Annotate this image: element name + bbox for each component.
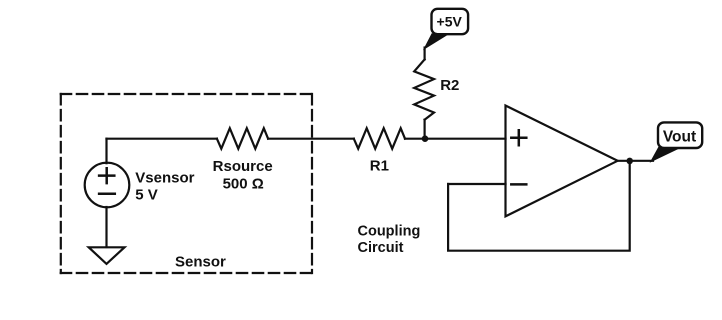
voltage source Vsensor circle [85, 163, 130, 208]
ground symbol [89, 247, 125, 264]
svg-text:Sensor: Sensor [175, 254, 226, 271]
wire from voltage source bottom to ground [105, 207, 107, 247]
wire: feedback loop [448, 161, 630, 251]
Vout flag pennant [651, 147, 678, 162]
svg-text:Vout: Vout [663, 129, 696, 146]
+5V flag pennant [424, 34, 447, 49]
svg-text:Rsource: Rsource [213, 158, 273, 175]
resistor Rsource zigzag [217, 128, 268, 149]
resistor R2 vertical zigzag [414, 59, 434, 119]
wire: R1 through node to op-amp plus input [405, 138, 506, 140]
node junction dot at R1/R2 [422, 135, 429, 142]
op-amp plus input symbol [511, 130, 526, 145]
wire: Rsource to R1 [268, 138, 354, 140]
node junction dot at output [626, 158, 633, 165]
wire: R2 bottom to node [424, 120, 426, 139]
resistor R1 zigzag [354, 128, 405, 149]
svg-text:R2: R2 [440, 77, 459, 94]
op-amp U1 triangle [506, 106, 618, 217]
voltage source minus sign [99, 192, 115, 195]
wire: inverting input [448, 183, 505, 185]
svg-text:500 Ω: 500 Ω [223, 175, 264, 192]
svg-text:5 V: 5 V [135, 186, 158, 203]
wire: main horizontal from source to Rsource [107, 138, 217, 140]
dashed sensor enclosure box [61, 94, 312, 273]
svg-text:R1: R1 [370, 158, 389, 175]
Vout flag box [658, 122, 702, 148]
svg-text:Vsensor: Vsensor [135, 170, 194, 187]
svg-text:+5V: +5V [437, 14, 463, 30]
voltage source plus sign [99, 168, 114, 183]
wire: R2 top to +5V flag [424, 48, 426, 60]
op-amp minus input symbol [511, 183, 526, 186]
wire from main line down to voltage source top [105, 139, 107, 164]
wire: op-amp output [618, 160, 653, 162]
svg-text:Coupling: Coupling [358, 223, 421, 239]
+5V flag box [432, 9, 469, 34]
svg-text:Circuit: Circuit [358, 240, 404, 256]
